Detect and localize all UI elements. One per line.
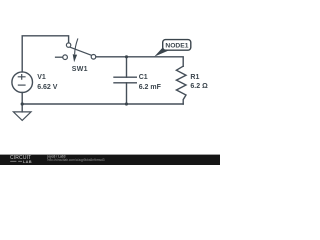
svg-text:R1: R1	[190, 74, 199, 81]
wire V1 top to switch pole	[22, 36, 68, 72]
svg-text:htto://circuitlab.com/c/aqp9kb: htto://circuitlab.com/c/aqp9kba5nfbmsd3	[48, 158, 105, 162]
capacitor C1 top lead	[126, 57, 128, 77]
svg-text:V1: V1	[37, 74, 46, 81]
voltage source V1	[12, 72, 33, 93]
ground	[13, 112, 31, 121]
junction dot C1 bottom	[125, 102, 128, 105]
junction dot V1 bottom	[21, 102, 24, 105]
wire bottom net	[22, 103, 183, 105]
watermark bar	[0, 155, 220, 166]
capacitor C1 plates	[114, 77, 136, 83]
capacitor C1 bottom lead	[126, 83, 128, 104]
switch SW1	[55, 38, 96, 59]
svg-text:NODE1: NODE1	[165, 43, 188, 50]
wire switch common to R1 top	[96, 57, 183, 66]
svg-text:C1: C1	[139, 74, 148, 81]
svg-text:6.62 V: 6.62 V	[37, 84, 58, 91]
svg-text:6.2 mF: 6.2 mF	[139, 84, 162, 91]
junction dot C1 top	[125, 55, 128, 58]
svg-text:6.2 Ω: 6.2 Ω	[190, 83, 208, 90]
label R1 value 6.2 ohm	[190, 74, 208, 90]
svg-text:LAB: LAB	[23, 159, 32, 164]
switch SW1 arrowhead	[73, 54, 77, 62]
svg-text:SW1: SW1	[72, 66, 88, 73]
resistor R1	[176, 66, 186, 104]
wire V1 bottom to ground	[21, 93, 23, 112]
label V1 value 6.62 V	[37, 74, 58, 91]
node NODE1 flag box	[163, 40, 191, 51]
label C1 value 6.2 mF	[139, 74, 162, 91]
node NODE1 flag pointer	[154, 47, 170, 57]
